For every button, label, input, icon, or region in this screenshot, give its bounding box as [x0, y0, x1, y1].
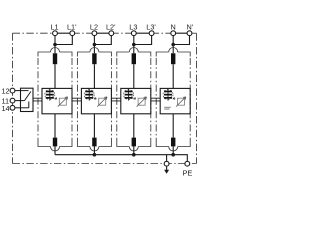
terminal 14 [10, 105, 15, 110]
module 2 border [77, 48, 111, 152]
node L1 junction [53, 43, 57, 47]
terminal PE [185, 161, 190, 166]
PE bus wire [55, 155, 187, 161]
wire L3' jumper [134, 36, 152, 45]
terminal L1' [70, 31, 75, 36]
earth electrode arrow [164, 167, 169, 174]
module 3 group [132, 36, 152, 53]
terminal L1 [53, 31, 58, 36]
wire L3-L3' top link [134, 32, 152, 34]
svg-text:L3: L3 [129, 23, 137, 32]
module 4 group [171, 36, 189, 53]
spark gap symbol (module 4) [163, 89, 173, 101]
spark gap symbol (module 3) [124, 89, 134, 101]
module 3 border [117, 48, 151, 152]
wire from box to lower disconnector (module 4) [172, 114, 174, 138]
wire to PE bus (module 4) [172, 146, 174, 154]
terminal L2 [92, 31, 97, 36]
module 2 group [93, 36, 112, 53]
trigger unit square (module 4) [176, 97, 186, 107]
node N junction [171, 43, 175, 47]
node bus L2 [93, 153, 97, 157]
terminal earth [164, 161, 169, 166]
trigger arrow (module 2) [92, 96, 96, 99]
remote signalling contact group [2, 87, 34, 113]
disconnector element bottom (module 4) [171, 138, 175, 147]
wire earth tap [166, 155, 168, 161]
wire to box (module 3) [133, 64, 135, 88]
module 1 border [38, 48, 72, 152]
trigger arrow (module 3) [131, 96, 135, 99]
wire from box to lower disconnector (module 3) [133, 114, 135, 138]
switch box S1 [21, 88, 34, 111]
wire from box to lower disconnector (module 1) [54, 114, 56, 138]
wire to box (module 1) [54, 64, 56, 88]
wire N-N' top link [173, 32, 189, 34]
disconnector element bottom (module 2) [92, 138, 96, 147]
disconnector element top (module 4) [171, 53, 175, 64]
svg-text:N': N' [187, 23, 194, 32]
enclosure border top [13, 32, 56, 34]
label N/PE (module 4) [164, 107, 170, 110]
contact 14 hook [28, 102, 30, 108]
terminal L2' [109, 31, 114, 36]
terminal L3 [131, 31, 136, 36]
terminal N' [187, 31, 192, 36]
terminal 11 [10, 98, 15, 103]
spark gap symbol (module 1) [45, 89, 55, 101]
wire L2-L2' top link [94, 32, 111, 34]
wire N' jumper [173, 36, 189, 45]
wire L1-L1' top link [55, 32, 72, 34]
trigger unit square (module 2) [97, 97, 107, 107]
disconnector element top (module 2) [92, 53, 96, 64]
enclosure border right [196, 33, 198, 163]
node L3 junction [132, 43, 136, 47]
node bus L3 [132, 153, 136, 157]
trigger arrow (module 4) [171, 96, 175, 99]
SPD unit box U4 N-PE [160, 88, 190, 113]
wire L2' jumper [94, 36, 111, 45]
svg-text:N: N [171, 23, 176, 32]
wire to PE bus (module 2) [93, 146, 95, 154]
svg-text:L2: L2 [90, 23, 98, 32]
wire 14 [15, 107, 29, 109]
SPD unit box U3 [121, 88, 151, 113]
terminal N [171, 31, 176, 36]
mechanical linkage double lines [33, 98, 160, 101]
trigger unit square (module 1) [58, 97, 68, 107]
disconnector element top (module 1) [53, 53, 57, 64]
switch lever [25, 92, 31, 101]
wire L1' jumper [55, 36, 72, 45]
enclosure border left [12, 33, 14, 163]
wire from box to lower disconnector (module 2) [93, 114, 95, 138]
svg-text:L3': L3' [146, 23, 156, 32]
wire N drop [172, 36, 174, 53]
wire 11 [15, 100, 24, 102]
disconnector element bottom (module 3) [132, 138, 136, 147]
wire L3 drop [133, 36, 135, 53]
terminal L3' [149, 31, 154, 36]
wire L2 drop [93, 36, 95, 53]
module 1 group [53, 36, 72, 53]
trigger arrow (module 1) [53, 96, 57, 99]
spark gap symbol (module 2) [84, 89, 94, 101]
wire to PE bus (module 3) [133, 146, 135, 154]
wire 12 [15, 90, 28, 92]
svg-text:L2': L2' [106, 23, 116, 32]
node bus N [171, 153, 175, 157]
disconnector element bottom (module 1) [53, 138, 57, 147]
wire to box (module 4) [172, 64, 174, 88]
wire to PE bus (module 1) [54, 146, 56, 154]
wire L1 drop [54, 36, 56, 53]
svg-text:12: 12 [2, 87, 10, 96]
enclosure border bottom [13, 163, 197, 165]
node L2 junction [93, 43, 97, 47]
terminal 12 [10, 88, 15, 93]
SPD unit box U2 [81, 88, 111, 113]
wire to box (module 2) [93, 64, 95, 88]
svg-text:L1': L1' [67, 23, 77, 32]
module 4 border [156, 48, 190, 152]
svg-text:14: 14 [2, 104, 10, 113]
SPD unit box U1 [42, 88, 72, 113]
trigger unit square (module 3) [137, 97, 147, 107]
svg-text:L1: L1 [51, 23, 59, 32]
svg-text:PE: PE [183, 169, 193, 178]
disconnector element top (module 3) [132, 53, 136, 64]
